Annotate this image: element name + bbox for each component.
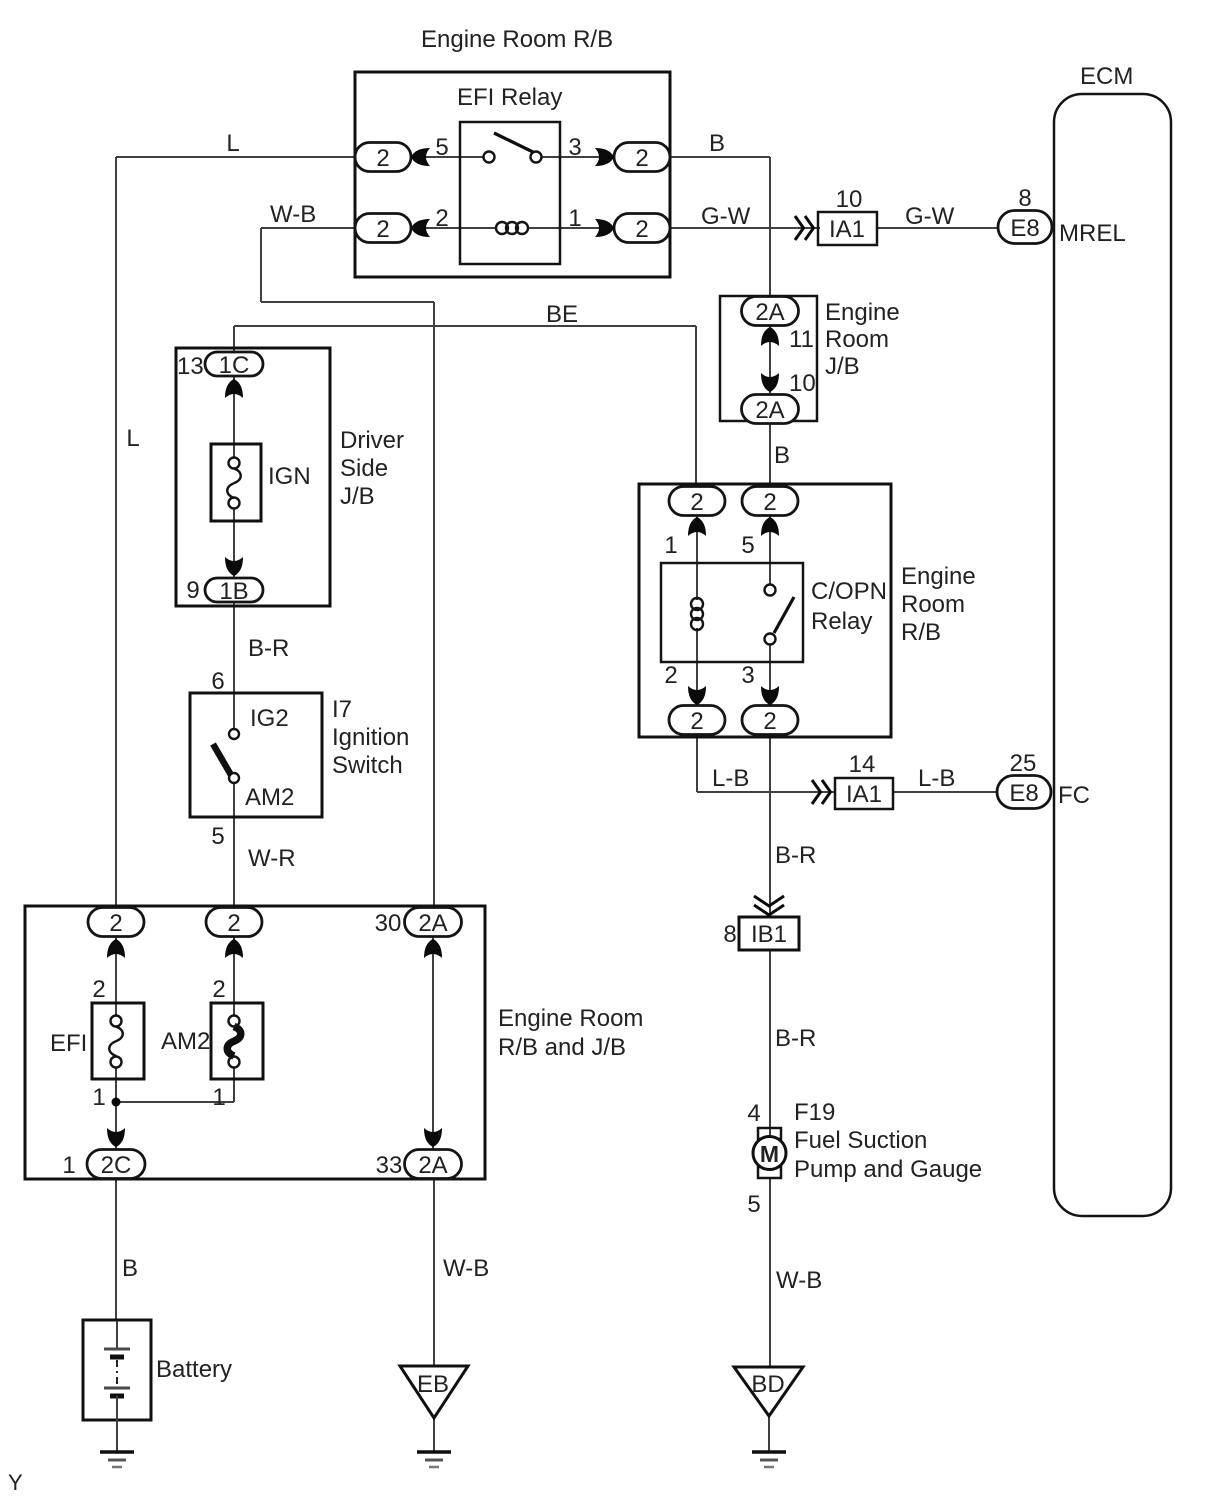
wire L-B horizontal to IA1 (697, 791, 835, 793)
svg-text:10: 10 (836, 186, 863, 213)
svg-text:Room: Room (825, 326, 889, 353)
fuse IGN box (211, 444, 261, 521)
svg-text:2: 2 (690, 489, 703, 516)
svg-text:B-R: B-R (775, 842, 816, 869)
svg-text:C/OPN: C/OPN (811, 578, 887, 605)
svg-text:B: B (774, 442, 790, 469)
svg-text:Pump and Gauge: Pump and Gauge (794, 1156, 982, 1183)
svg-text:2: 2 (109, 910, 122, 937)
wire W-R switch to J/B (233, 816, 235, 909)
wire W-B vertical (260, 228, 262, 302)
arrow right row1 EFI relay (595, 148, 614, 166)
svg-text:2A: 2A (418, 1152, 447, 1179)
wire B top horizontal (669, 156, 770, 158)
svg-text:EFI Relay: EFI Relay (457, 84, 562, 111)
wire engine JB between 2A (769, 324, 771, 397)
wire EFI relay row2 left (411, 227, 497, 229)
svg-text:Engine: Engine (901, 563, 976, 590)
label C/OPN Relay (811, 578, 887, 635)
wire 2A to C/OPN relay (769, 423, 771, 488)
svg-text:2: 2 (690, 708, 703, 735)
svg-text:IG2: IG2 (250, 705, 289, 732)
switch contacts EFI relay (484, 133, 542, 163)
wire L horizontal top (116, 156, 356, 158)
svg-text:2: 2 (376, 216, 389, 243)
label I7 Ignition Switch (332, 696, 409, 779)
arrow down into 1B (225, 557, 243, 576)
svg-text:B-R: B-R (248, 635, 289, 662)
fuse EFI box (92, 1003, 144, 1079)
svg-text:G-W: G-W (701, 203, 751, 230)
connector oval 2 EFI relay right bottom (614, 214, 670, 244)
svg-text:Ignition: Ignition (332, 724, 409, 751)
svg-text:L: L (126, 425, 139, 452)
svg-text:1B: 1B (219, 578, 248, 605)
ground below battery (100, 1452, 134, 1467)
fusible link AM2 symbol (227, 1016, 241, 1068)
svg-text:2: 2 (92, 976, 105, 1003)
wire 1B to ignition switch (233, 603, 235, 694)
junction dot EFI AM2 (112, 1098, 121, 1107)
ground triangle BD (734, 1367, 803, 1416)
chevron pair into IA1 pin14 (812, 780, 831, 804)
wire B vertical to 2A (769, 157, 771, 298)
svg-text:I7: I7 (332, 696, 352, 723)
relay box Engine Room R/B (EFI Relay outer) (355, 72, 670, 277)
svg-text:5: 5 (435, 134, 448, 161)
connector oval 2A engine JB top (742, 297, 799, 327)
connector oval 2 C/OPN top left (669, 487, 725, 517)
wire W-B long vertical (433, 302, 435, 909)
svg-text:Relay: Relay (811, 608, 872, 635)
connector oval 2A bottom box pin33 (405, 1150, 462, 1180)
connector oval 2C pin1 (87, 1150, 145, 1180)
ground below EB (417, 1452, 451, 1467)
svg-text:Y: Y (8, 1470, 23, 1495)
svg-text:EFI: EFI (50, 1030, 87, 1057)
ground below BD (752, 1452, 786, 1467)
svg-text:2: 2 (227, 910, 240, 937)
junction block Engine Room R/B and J/B (25, 906, 485, 1179)
connector oval 2 bottom box mid (206, 908, 262, 938)
connector oval 2A engine JB bottom (742, 395, 799, 425)
label Driver Side J/B (340, 427, 404, 510)
svg-text:R/B: R/B (901, 619, 941, 646)
arrow down into 2C (107, 1128, 125, 1147)
wire EFI fuse feed (115, 936, 117, 1016)
svg-text:2: 2 (664, 662, 677, 689)
svg-text:2A: 2A (755, 299, 784, 326)
wire AM2 fuse out (233, 1067, 235, 1102)
wire C/OPN switch to pin3 (769, 644, 771, 706)
connector oval 2 C/OPN bottom right (742, 706, 798, 736)
label Engine Room J/B (825, 299, 900, 380)
svg-text:4: 4 (747, 1100, 760, 1127)
svg-text:W-B: W-B (443, 1255, 489, 1282)
connector oval 2 C/OPN bottom left (669, 706, 725, 736)
svg-text:9: 9 (186, 577, 199, 604)
svg-text:Engine Room: Engine Room (498, 1005, 643, 1032)
switch contacts I7 ignition (213, 729, 239, 783)
fuse AM2 box (211, 1003, 263, 1079)
wire G-W to IA1 (669, 227, 820, 229)
svg-text:IA1: IA1 (846, 781, 882, 808)
wire B-R IB1 to pump (769, 950, 771, 1130)
wire battery B (115, 1178, 117, 1321)
svg-text:L-B: L-B (712, 765, 749, 792)
svg-text:1C: 1C (219, 352, 250, 379)
svg-text:2A: 2A (755, 397, 784, 424)
battery box (83, 1320, 151, 1420)
arrow down into C/OPN bottom right 2 (761, 686, 779, 705)
relay box Engine Room R/B (C/OPN outer) (639, 484, 891, 737)
svg-text:Engine Room R/B: Engine Room R/B (421, 26, 613, 53)
connector IB1 box pin8 (739, 917, 799, 950)
arrow right row2 EFI relay (595, 219, 614, 237)
svg-text:ECM: ECM (1080, 63, 1133, 90)
svg-text:2: 2 (635, 145, 648, 172)
svg-text:B: B (122, 1255, 138, 1282)
connector IA1 box pin14 (835, 778, 893, 809)
svg-text:2A: 2A (418, 910, 447, 937)
svg-text:W-B: W-B (776, 1267, 822, 1294)
arrow left row2 EFI relay (411, 219, 430, 237)
svg-text:AM2: AM2 (161, 1028, 210, 1055)
arrow down into 2A pin33 (424, 1128, 442, 1147)
wire C/OPN pin2 down (696, 734, 698, 792)
arrow up into 2A engine JB (761, 327, 779, 346)
ECM rounded box (1054, 94, 1171, 1216)
svg-text:MREL: MREL (1059, 220, 1126, 247)
connector oval 2A bottom box pin30 (405, 908, 462, 938)
wire EB to ground (433, 1418, 435, 1452)
wire EFI fuse out (115, 1067, 117, 1150)
chevron pair into IA1 pin10 (795, 216, 814, 240)
svg-text:1: 1 (62, 1152, 75, 1179)
wire BE stub to 1C (233, 326, 235, 352)
svg-text:R/B and J/B: R/B and J/B (498, 1034, 626, 1061)
arrow up into C/OPN top left 2 (688, 517, 706, 536)
junction block Engine Room J/B (720, 296, 817, 421)
wire C/OPN coil branch (696, 514, 698, 600)
svg-text:2: 2 (212, 976, 225, 1003)
arrow down into C/OPN bottom left 2 (688, 686, 706, 705)
connector oval 1C (205, 352, 263, 379)
svg-text:Driver: Driver (340, 427, 404, 454)
arrow down into 2A engine JB lower (761, 373, 779, 392)
wire W-B lower horizontal (261, 301, 434, 303)
arrow up into 2 bottom box left (107, 939, 125, 958)
svg-text:E8: E8 (1009, 780, 1038, 807)
svg-text:W-R: W-R (248, 845, 296, 872)
connector oval 2 C/OPN top right (742, 487, 798, 517)
svg-text:1: 1 (212, 1084, 225, 1111)
svg-text:Switch: Switch (332, 752, 403, 779)
svg-text:5: 5 (741, 532, 754, 559)
wire switch box internal top (233, 694, 235, 730)
EFI relay inner box (460, 122, 560, 264)
svg-text:BD: BD (751, 1371, 784, 1398)
C/OPN relay inner box (661, 563, 803, 662)
fuse EFI symbol (109, 1016, 123, 1068)
svg-text:B-R: B-R (775, 1025, 816, 1052)
svg-text:B: B (709, 130, 725, 157)
wire driver JB 1C to IGN fuse (233, 376, 235, 458)
svg-text:2: 2 (763, 708, 776, 735)
wire pump to BD (769, 1177, 771, 1368)
svg-text:2: 2 (376, 145, 389, 172)
svg-text:F19: F19 (794, 1099, 835, 1126)
svg-text:6: 6 (211, 668, 224, 695)
wire L-B to E8 FC (893, 791, 998, 793)
wire EFI relay row2 right (527, 227, 614, 229)
motor F19 fuel pump (753, 1128, 786, 1178)
svg-text:M: M (760, 1141, 779, 1167)
svg-text:G-W: G-W (905, 203, 955, 230)
connector oval 2 EFI relay right top (614, 143, 670, 173)
svg-text:EB: EB (417, 1371, 449, 1398)
arrow left row1 EFI relay (411, 148, 430, 166)
svg-text:8: 8 (1018, 185, 1031, 212)
wire BE horizontal (234, 325, 696, 327)
svg-text:1: 1 (664, 532, 677, 559)
wire AM2 fuse feed (233, 936, 235, 1016)
wire BE vertical to C/OPN (695, 326, 697, 488)
svg-text:3: 3 (568, 134, 581, 161)
svg-text:J/B: J/B (340, 483, 375, 510)
wire W-B horizontal (261, 227, 356, 229)
svg-text:IB1: IB1 (751, 921, 787, 948)
svg-text:Fuel Suction: Fuel Suction (794, 1127, 927, 1154)
svg-text:30: 30 (375, 910, 402, 937)
svg-text:5: 5 (211, 823, 224, 850)
connector oval 1B (205, 578, 263, 605)
wire W-B to EB (433, 1178, 435, 1367)
svg-text:14: 14 (849, 751, 876, 778)
switch I7 ignition switch box (190, 693, 322, 817)
svg-text:25: 25 (1010, 750, 1037, 777)
coil C/OPN relay (691, 598, 703, 630)
svg-text:L: L (226, 130, 239, 157)
wire driver JB IGN to 1B (233, 508, 235, 577)
connector IA1 box pin10 (818, 212, 877, 245)
svg-text:33: 33 (376, 1152, 403, 1179)
wire EFI relay row1 right (541, 156, 614, 158)
wire switch box internal bottom (233, 782, 235, 816)
label Engine Room R/B right (901, 563, 976, 646)
connector oval 2 EFI relay left top (355, 143, 411, 173)
wire G-W to E8 (877, 227, 999, 229)
connector oval 2 bottom box left (88, 908, 144, 938)
svg-text:11: 11 (789, 326, 814, 353)
battery symbol (104, 1321, 130, 1452)
svg-text:E8: E8 (1010, 215, 1039, 242)
wire 2A to 2A vertical (432, 936, 434, 1150)
svg-text:1: 1 (92, 1084, 105, 1111)
svg-text:AM2: AM2 (245, 784, 294, 811)
ground triangle EB (400, 1366, 468, 1418)
connector oval E8 FC (997, 776, 1051, 809)
svg-text:IGN: IGN (268, 463, 311, 490)
svg-text:Battery: Battery (156, 1356, 232, 1383)
svg-text:Side: Side (340, 455, 388, 482)
svg-text:8: 8 (723, 921, 736, 948)
svg-text:3: 3 (741, 662, 754, 689)
svg-text:FC: FC (1058, 782, 1090, 809)
svg-text:2: 2 (635, 216, 648, 243)
connector oval 2 EFI relay left bottom (355, 214, 411, 244)
arrow up into 2 bottom box mid (225, 939, 243, 958)
svg-text:W-B: W-B (270, 201, 316, 228)
arrow up into C/OPN top right 2 (761, 517, 779, 536)
svg-text:J/B: J/B (825, 353, 860, 380)
label F19 Fuel Suction Pump and Gauge (794, 1099, 982, 1183)
wire B-R C/OPN to IB1 (769, 734, 771, 917)
svg-text:1: 1 (568, 205, 581, 232)
switch contacts C/OPN relay (765, 585, 795, 645)
svg-text:10: 10 (789, 370, 816, 397)
svg-text:BE: BE (546, 301, 578, 328)
wire C/OPN coil to pin2 (696, 628, 698, 706)
fuse IGN symbol (227, 458, 241, 509)
wire L vertical left (115, 157, 117, 909)
junction block Driver Side J/B (176, 348, 330, 606)
svg-text:2C: 2C (101, 1152, 132, 1179)
wire junction horizontal (116, 1101, 234, 1103)
wire EFI relay row1 left (411, 156, 484, 158)
svg-text:L-B: L-B (918, 765, 955, 792)
svg-text:Engine: Engine (825, 299, 900, 326)
svg-text:IA1: IA1 (829, 216, 865, 243)
arrow up into 1C (225, 379, 243, 398)
svg-text:2: 2 (763, 489, 776, 516)
label Engine Room R/B and J/B (498, 1005, 643, 1061)
connector oval E8 MREL (998, 211, 1052, 244)
svg-text:5: 5 (747, 1191, 760, 1218)
svg-text:Room: Room (901, 591, 965, 618)
svg-text:13: 13 (177, 353, 204, 380)
chevron pair into IB1 (754, 896, 784, 915)
coil EFI relay (496, 222, 528, 234)
wire C/OPN switch branch (769, 514, 771, 585)
wire BD to ground (768, 1416, 770, 1452)
arrow up into 2A bottom box (424, 939, 442, 958)
svg-text:2: 2 (435, 205, 448, 232)
